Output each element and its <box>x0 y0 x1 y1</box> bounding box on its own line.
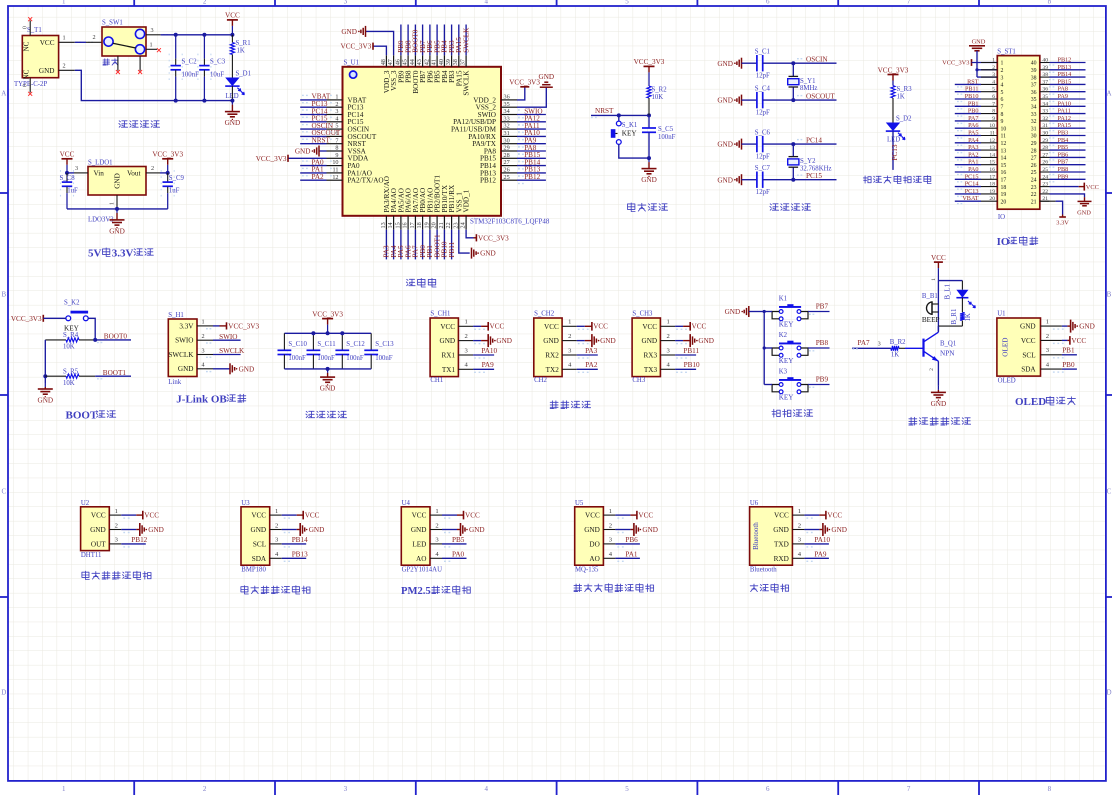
svg-text:SWCLK: SWCLK <box>168 351 194 359</box>
svg-text:36: 36 <box>1042 87 1048 93</box>
svg-text:OSCOUT: OSCOUT <box>806 93 835 101</box>
svg-text:37: 37 <box>459 59 466 65</box>
svg-text:S_CH2: S_CH2 <box>534 311 555 318</box>
svg-text:IO: IO <box>998 214 1005 221</box>
svg-text:13: 13 <box>380 222 387 228</box>
svg-text:B_L1: B_L1 <box>945 284 952 299</box>
svg-text:VCC: VCC <box>593 322 608 330</box>
svg-text:RXD: RXD <box>774 555 789 563</box>
svg-text:2: 2 <box>62 62 65 69</box>
svg-text:PB0: PB0 <box>1062 361 1075 369</box>
svg-text:17: 17 <box>409 222 416 228</box>
svg-text:S_C5: S_C5 <box>658 126 674 133</box>
svg-text:S_R4: S_R4 <box>63 332 79 339</box>
svg-text:12pF: 12pF <box>756 189 770 196</box>
svg-text:2: 2 <box>92 34 95 41</box>
svg-text:7: 7 <box>992 101 995 107</box>
svg-text:PA10: PA10 <box>814 536 830 544</box>
svg-text:VCC_3V3: VCC_3V3 <box>878 66 909 74</box>
svg-text:S_CH3: S_CH3 <box>632 311 653 318</box>
svg-text:8: 8 <box>335 145 338 152</box>
svg-text:PA0: PA0 <box>452 550 465 558</box>
svg-text:25: 25 <box>504 174 510 181</box>
svg-text:7: 7 <box>907 0 911 6</box>
svg-text:22: 22 <box>1042 189 1048 195</box>
svg-text:VCC_3V3: VCC_3V3 <box>942 60 969 67</box>
svg-text:TX2: TX2 <box>546 366 560 374</box>
svg-text:MQ-135: MQ-135 <box>575 566 599 573</box>
svg-text:PA5: PA5 <box>968 130 978 137</box>
svg-text:GND: GND <box>584 526 600 534</box>
svg-text:1: 1 <box>149 41 152 48</box>
svg-text:PA6: PA6 <box>968 122 978 129</box>
svg-text:S_C11: S_C11 <box>317 341 335 348</box>
svg-text:GND: GND <box>972 39 986 46</box>
svg-text:GND: GND <box>38 396 54 404</box>
svg-text:1: 1 <box>798 508 801 515</box>
svg-text:30: 30 <box>1031 134 1037 140</box>
svg-text:LED: LED <box>412 541 426 549</box>
svg-text:GND: GND <box>1020 323 1036 331</box>
svg-text:20: 20 <box>431 222 438 228</box>
svg-text:PB13: PB13 <box>292 550 308 558</box>
svg-text:39: 39 <box>1031 68 1037 74</box>
svg-text:SWIO: SWIO <box>175 337 193 345</box>
svg-text:VCC_3V3: VCC_3V3 <box>312 310 343 318</box>
svg-text:VCC: VCC <box>692 322 707 330</box>
svg-text:29: 29 <box>504 145 510 152</box>
svg-text:24: 24 <box>1042 174 1048 180</box>
svg-text:12: 12 <box>989 138 995 144</box>
svg-text:PB6: PB6 <box>625 536 638 544</box>
svg-text:38: 38 <box>452 59 459 65</box>
svg-text:12pF: 12pF <box>756 73 770 80</box>
svg-text:B_Q1: B_Q1 <box>940 340 956 347</box>
svg-text:VCC: VCC <box>440 323 455 331</box>
svg-text:PC14: PC14 <box>806 137 822 145</box>
svg-text:PB10: PB10 <box>684 361 700 369</box>
svg-text:21: 21 <box>438 222 445 228</box>
svg-text:GND: GND <box>641 176 657 184</box>
svg-text:OUT: OUT <box>91 541 106 549</box>
svg-text:DO: DO <box>589 541 599 549</box>
svg-text:GND: GND <box>341 28 357 36</box>
svg-text:39: 39 <box>445 59 452 65</box>
svg-text:VCC: VCC <box>931 254 946 262</box>
svg-text:VCC: VCC <box>412 512 427 520</box>
svg-text:15: 15 <box>989 160 995 166</box>
svg-text:KEY: KEY <box>779 393 795 401</box>
svg-text:GND: GND <box>480 250 496 258</box>
svg-text:2: 2 <box>464 333 467 340</box>
svg-text:VCC_3V3: VCC_3V3 <box>478 234 509 242</box>
svg-text:VCC: VCC <box>60 151 75 159</box>
svg-text:S_C1: S_C1 <box>755 49 770 56</box>
svg-text:AO: AO <box>589 555 599 563</box>
svg-text:B_R1: B_R1 <box>951 309 958 325</box>
svg-text:23: 23 <box>452 222 459 228</box>
svg-text:1: 1 <box>568 319 571 326</box>
svg-text:PB8: PB8 <box>1058 166 1069 173</box>
svg-text:VCC: VCC <box>1021 337 1036 345</box>
svg-text:35: 35 <box>1031 97 1037 103</box>
svg-text:VCC: VCC <box>251 512 266 520</box>
svg-text:1: 1 <box>62 0 66 6</box>
svg-text:GND: GND <box>496 337 512 345</box>
svg-text:GND: GND <box>600 337 616 345</box>
svg-text:SCL: SCL <box>253 541 266 549</box>
svg-text:34: 34 <box>1042 101 1048 107</box>
svg-text:PB11: PB11 <box>965 86 979 93</box>
svg-text:PC15: PC15 <box>965 173 979 180</box>
svg-text:46: 46 <box>394 59 401 65</box>
svg-text:TX3: TX3 <box>644 366 658 374</box>
svg-text:VCC_3V3: VCC_3V3 <box>509 78 540 86</box>
svg-text:1: 1 <box>201 319 204 326</box>
svg-text:2: 2 <box>798 522 801 529</box>
svg-text:12pF: 12pF <box>756 110 770 117</box>
svg-text:2: 2 <box>929 368 935 371</box>
svg-text:3: 3 <box>75 165 78 172</box>
svg-text:PB15: PB15 <box>1058 78 1072 85</box>
svg-text:3: 3 <box>201 347 204 354</box>
svg-text:S_R3: S_R3 <box>897 86 913 93</box>
svg-text:15: 15 <box>1001 163 1007 169</box>
svg-text:36: 36 <box>504 94 510 101</box>
svg-text:20: 20 <box>1001 199 1007 205</box>
svg-text:11: 11 <box>990 131 996 137</box>
svg-text:GND: GND <box>1079 323 1095 331</box>
svg-text:K3: K3 <box>779 369 788 376</box>
svg-text:B: B <box>1107 291 1112 299</box>
svg-text:2: 2 <box>335 101 338 108</box>
svg-text:1: 1 <box>464 319 467 326</box>
svg-text:Bluetooth: Bluetooth <box>752 522 760 550</box>
svg-text:32.768KHz: 32.768KHz <box>800 166 832 173</box>
svg-text:2: 2 <box>151 165 154 172</box>
svg-text:44: 44 <box>409 59 416 65</box>
svg-text:3: 3 <box>335 108 338 115</box>
svg-text:GND: GND <box>239 365 255 373</box>
svg-text:NRST: NRST <box>312 137 331 145</box>
svg-text:16: 16 <box>1001 170 1007 176</box>
svg-text:5: 5 <box>1001 90 1004 96</box>
svg-text:25: 25 <box>1031 170 1037 176</box>
svg-text:39: 39 <box>1042 65 1048 71</box>
svg-text:SWCLK: SWCLK <box>463 70 471 96</box>
svg-text:2: 2 <box>201 333 204 340</box>
svg-text:AO: AO <box>416 555 426 563</box>
svg-text:7: 7 <box>907 785 911 793</box>
svg-text:7: 7 <box>1001 105 1004 111</box>
svg-text:GND: GND <box>90 526 106 534</box>
svg-text:RX1: RX1 <box>442 352 456 360</box>
svg-text:1: 1 <box>931 278 937 281</box>
svg-text:14: 14 <box>989 152 995 158</box>
svg-text:2: 2 <box>992 65 995 71</box>
svg-text:3.3V: 3.3V <box>1056 220 1069 227</box>
svg-text:S_K1: S_K1 <box>622 122 638 129</box>
svg-text:2: 2 <box>203 0 207 6</box>
svg-text:S_C9: S_C9 <box>169 175 185 182</box>
svg-text:25: 25 <box>1042 167 1048 173</box>
svg-text:S_SW1: S_SW1 <box>102 20 123 27</box>
svg-text:1K: 1K <box>891 351 899 358</box>
svg-text:28: 28 <box>1042 145 1048 151</box>
svg-text:D: D <box>1106 689 1111 697</box>
svg-text:SCL: SCL <box>1022 351 1035 359</box>
svg-text:S_R2: S_R2 <box>652 86 668 93</box>
svg-text:PB10: PB10 <box>965 93 979 100</box>
svg-text:A: A <box>1106 90 1111 98</box>
svg-text:VCC: VCC <box>1086 184 1099 191</box>
svg-text:K2: K2 <box>779 332 788 339</box>
svg-text:1K: 1K <box>965 313 972 321</box>
svg-text:8: 8 <box>992 109 995 115</box>
svg-text:GND: GND <box>539 73 555 81</box>
svg-text:12pF: 12pF <box>756 154 770 161</box>
svg-text:PA9: PA9 <box>814 550 827 558</box>
svg-text:13: 13 <box>1001 148 1007 154</box>
svg-text:CH1: CH1 <box>430 377 443 384</box>
svg-text:S_K2: S_K2 <box>64 299 80 306</box>
svg-text:Vout: Vout <box>127 170 140 178</box>
svg-text:4: 4 <box>992 79 995 85</box>
svg-text:S_C7: S_C7 <box>755 165 771 172</box>
svg-text:S_D2: S_D2 <box>896 115 912 122</box>
svg-text:VCC_3V3: VCC_3V3 <box>228 322 259 330</box>
svg-text:8: 8 <box>1001 112 1004 118</box>
svg-text:PA7: PA7 <box>968 115 978 122</box>
svg-text:GND: GND <box>717 141 733 149</box>
svg-text:PA12: PA12 <box>1058 115 1072 122</box>
svg-text:3.3V: 3.3V <box>112 248 134 260</box>
svg-text:GND: GND <box>717 60 733 68</box>
svg-text:33: 33 <box>504 115 510 122</box>
svg-text:1: 1 <box>275 508 278 515</box>
svg-text:PA2: PA2 <box>312 173 325 181</box>
svg-text:14: 14 <box>387 222 394 228</box>
svg-text:26: 26 <box>1042 160 1048 166</box>
svg-text:PC13: PC13 <box>965 188 979 195</box>
svg-text:16: 16 <box>402 222 409 228</box>
svg-text:2: 2 <box>203 785 207 793</box>
svg-text:PB4: PB4 <box>1058 137 1069 144</box>
svg-text:3: 3 <box>992 72 995 78</box>
svg-text:PB12: PB12 <box>524 173 540 181</box>
svg-text:VCC: VCC <box>642 323 657 331</box>
svg-text:PC15: PC15 <box>806 172 822 180</box>
svg-text:38: 38 <box>1031 75 1037 81</box>
svg-text:10K: 10K <box>63 344 75 351</box>
svg-text:STM32F103C8T6_LQFP48: STM32F103C8T6_LQFP48 <box>470 217 550 225</box>
svg-text:35: 35 <box>1042 94 1048 100</box>
svg-text:VCC: VCC <box>305 511 320 519</box>
svg-text:9: 9 <box>992 116 995 122</box>
svg-text:19: 19 <box>423 222 430 228</box>
svg-text:B_R2: B_R2 <box>890 339 906 346</box>
svg-text:VCC: VCC <box>465 511 480 519</box>
svg-text:GND: GND <box>39 67 55 75</box>
svg-text:4: 4 <box>484 785 488 793</box>
svg-text:SWCLK: SWCLK <box>219 347 245 355</box>
svg-text:5V: 5V <box>88 248 102 260</box>
svg-text:14: 14 <box>1001 156 1007 162</box>
svg-text:D: D <box>1 689 6 697</box>
svg-text:40: 40 <box>1031 61 1037 67</box>
svg-text:3: 3 <box>1001 75 1004 81</box>
svg-text:BEEP: BEEP <box>922 316 940 324</box>
svg-text:OLED: OLED <box>1015 396 1046 408</box>
svg-text:6: 6 <box>1001 97 1004 103</box>
svg-text:30: 30 <box>1042 131 1048 137</box>
svg-text:6: 6 <box>766 0 770 6</box>
svg-text:21: 21 <box>1031 199 1037 205</box>
svg-text:PB1: PB1 <box>968 100 979 107</box>
svg-text:VCC: VCC <box>225 12 240 20</box>
svg-text:PB5: PB5 <box>1058 144 1069 151</box>
svg-text:3.3V: 3.3V <box>179 322 194 330</box>
svg-text:GND: GND <box>109 227 125 235</box>
svg-text:31: 31 <box>504 130 510 137</box>
svg-text:PA2: PA2 <box>968 151 978 158</box>
svg-text:5: 5 <box>992 87 995 93</box>
svg-text:1: 1 <box>992 58 995 64</box>
svg-text:GND: GND <box>725 308 741 316</box>
svg-text:S_LDO1: S_LDO1 <box>88 160 113 167</box>
svg-text:OLED: OLED <box>1001 338 1009 357</box>
svg-text:SWIO: SWIO <box>219 333 237 341</box>
svg-text:PB8: PB8 <box>816 339 829 347</box>
svg-text:VCC_3V3: VCC_3V3 <box>341 43 372 51</box>
svg-text:1: 1 <box>666 319 669 326</box>
svg-text:13: 13 <box>989 145 995 151</box>
svg-text:19: 19 <box>1001 192 1007 198</box>
svg-text:32: 32 <box>1031 119 1037 125</box>
svg-text:DHT11: DHT11 <box>81 552 102 559</box>
svg-text:0: 0 <box>23 26 29 29</box>
svg-text:29: 29 <box>1042 138 1048 144</box>
svg-text:100nF: 100nF <box>375 355 393 362</box>
svg-text:28: 28 <box>1031 148 1037 154</box>
svg-text:1: 1 <box>62 785 66 793</box>
svg-text:1: 1 <box>115 508 118 515</box>
svg-text:37: 37 <box>1042 79 1048 85</box>
svg-text:2: 2 <box>609 522 612 529</box>
svg-text:S_Y2: S_Y2 <box>800 158 816 165</box>
svg-text:7: 7 <box>335 137 338 144</box>
svg-text:PB12: PB12 <box>480 177 496 185</box>
svg-text:40: 40 <box>1042 58 1048 64</box>
svg-text:GND: GND <box>251 526 267 534</box>
svg-text:11: 11 <box>1001 134 1007 140</box>
svg-text:VCC: VCC <box>144 511 159 519</box>
svg-text:PA10: PA10 <box>1058 100 1072 107</box>
svg-text:10: 10 <box>1001 126 1007 132</box>
svg-text:GND: GND <box>440 337 456 345</box>
svg-text:19: 19 <box>989 189 995 195</box>
svg-text:B_B1: B_B1 <box>922 293 938 300</box>
svg-text:31: 31 <box>1031 126 1037 132</box>
svg-text:4: 4 <box>201 362 204 369</box>
svg-text:40: 40 <box>438 59 445 65</box>
svg-text:1K: 1K <box>237 48 245 55</box>
svg-text:2: 2 <box>1001 68 1004 74</box>
svg-text:47: 47 <box>387 59 394 65</box>
svg-text:2: 2 <box>115 522 118 529</box>
svg-text:BOOT: BOOT <box>66 410 98 422</box>
svg-text:SWCLK: SWCLK <box>462 27 470 53</box>
svg-text:15: 15 <box>394 222 401 228</box>
svg-text:22: 22 <box>1031 192 1037 198</box>
svg-text:16: 16 <box>989 167 995 173</box>
svg-text:23: 23 <box>1042 182 1048 188</box>
svg-text:PA15: PA15 <box>1058 122 1072 129</box>
svg-text:18: 18 <box>989 182 995 188</box>
svg-text:PB14: PB14 <box>292 536 308 544</box>
svg-text:PA0: PA0 <box>968 166 978 173</box>
svg-text:26: 26 <box>1031 163 1037 169</box>
svg-text:34: 34 <box>1031 105 1037 111</box>
svg-text:S_R5: S_R5 <box>63 368 79 375</box>
svg-text:2: 2 <box>435 522 438 529</box>
svg-text:A: A <box>1 90 6 98</box>
svg-text:3: 3 <box>344 785 348 793</box>
svg-text:10: 10 <box>989 123 995 129</box>
svg-text:CH2: CH2 <box>534 377 547 384</box>
svg-text:10uF: 10uF <box>210 71 224 78</box>
svg-text:32: 32 <box>504 123 510 130</box>
svg-text:S_T1: S_T1 <box>27 27 42 34</box>
svg-text:PB12: PB12 <box>1058 57 1072 64</box>
svg-text:11: 11 <box>333 167 339 174</box>
svg-text:GND: GND <box>148 526 164 534</box>
svg-text:S_U1: S_U1 <box>344 59 360 66</box>
svg-text:S_C10: S_C10 <box>288 341 307 348</box>
svg-text:S_C13: S_C13 <box>375 341 394 348</box>
svg-text:34: 34 <box>504 108 510 115</box>
svg-text:3: 3 <box>344 0 348 6</box>
svg-text:24: 24 <box>459 222 466 228</box>
svg-text:43: 43 <box>416 59 423 65</box>
svg-text:17: 17 <box>989 174 995 180</box>
svg-text:PA1: PA1 <box>968 159 978 166</box>
svg-text:S_D1: S_D1 <box>236 71 252 78</box>
svg-text:VCC: VCC <box>40 39 55 47</box>
svg-text:1: 1 <box>1001 61 1004 67</box>
svg-text:0: 0 <box>23 84 29 87</box>
svg-text:KEY: KEY <box>779 320 795 328</box>
svg-text:6: 6 <box>766 785 770 793</box>
svg-text:37: 37 <box>1031 83 1037 89</box>
svg-text:NC: NC <box>23 69 31 79</box>
svg-text:PM2.5: PM2.5 <box>401 586 431 597</box>
svg-text:GND: GND <box>773 526 789 534</box>
svg-text:PA2/TX/AO: PA2/TX/AO <box>348 177 384 185</box>
svg-text:VCC: VCC <box>585 512 600 520</box>
svg-text:1uF: 1uF <box>67 187 78 194</box>
svg-text:NC: NC <box>23 41 31 51</box>
svg-text:PB1: PB1 <box>1062 347 1075 355</box>
svg-text:CH3: CH3 <box>632 377 645 384</box>
svg-text:1: 1 <box>110 202 116 205</box>
svg-text:K1: K1 <box>779 296 787 303</box>
svg-text:VCC: VCC <box>91 512 106 520</box>
svg-text:GND: GND <box>642 337 658 345</box>
svg-text:KEY: KEY <box>779 357 795 365</box>
svg-text:RX2: RX2 <box>545 352 559 360</box>
svg-text:27: 27 <box>504 159 510 166</box>
